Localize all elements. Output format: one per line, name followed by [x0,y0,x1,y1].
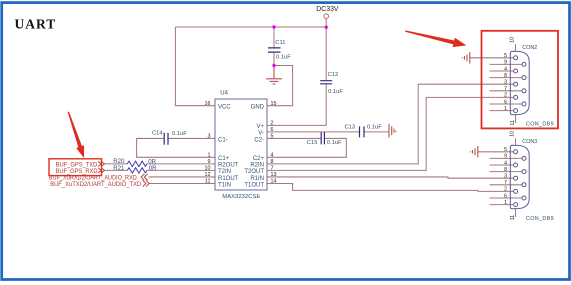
svg-text:2: 2 [504,187,507,193]
svg-text:9: 9 [504,60,507,66]
svg-text:BUF_XuTXD2/UART_AUDIO_TXD: BUF_XuTXD2/UART_AUDIO_TXD [50,182,142,188]
svg-text:12: 12 [205,172,211,178]
svg-text:10: 10 [510,37,516,43]
svg-text:VCC: VCC [218,105,231,111]
svg-text:C2-: C2- [254,137,264,143]
svg-text:0.1uF: 0.1uF [172,131,187,137]
svg-text:0.1uF: 0.1uF [276,55,291,61]
svg-text:7: 7 [271,166,274,172]
svg-text:CON3: CON3 [522,139,537,145]
svg-text:DC33V: DC33V [316,6,339,13]
svg-text:4: 4 [504,160,507,166]
svg-text:V-: V- [258,131,264,137]
svg-text:C11: C11 [275,40,285,46]
svg-text:4: 4 [271,153,274,159]
svg-text:GND: GND [251,105,265,111]
svg-text:C1-: C1- [218,137,228,143]
svg-text:14: 14 [271,179,277,185]
svg-text:13: 13 [271,172,277,178]
svg-text:8: 8 [504,73,507,79]
svg-text:C1+: C1+ [218,156,230,162]
svg-text:1: 1 [504,106,507,112]
svg-text:C15: C15 [307,140,318,146]
svg-text:10: 10 [205,166,211,172]
svg-text:C14: C14 [152,131,163,137]
svg-text:10: 10 [510,131,516,137]
svg-text:T2IN: T2IN [218,169,231,175]
svg-text:0.1uF: 0.1uF [367,124,382,130]
svg-text:0.1uF: 0.1uF [328,89,343,95]
svg-text:16: 16 [205,101,211,107]
svg-text:U4: U4 [220,90,228,96]
svg-text:9: 9 [504,154,507,160]
svg-text:11: 11 [205,179,211,185]
svg-text:8: 8 [271,159,274,165]
svg-text:T1OUT: T1OUT [244,182,264,188]
svg-text:6: 6 [271,127,274,133]
svg-text:V+: V+ [256,124,264,130]
svg-text:R1OUT: R1OUT [218,176,239,182]
svg-text:2: 2 [271,121,274,127]
svg-text:3: 3 [208,134,211,140]
svg-text:BUF_GPS_RXD: BUF_GPS_RXD [56,168,98,175]
svg-text:4: 4 [504,66,507,72]
svg-text:1: 1 [208,153,211,159]
svg-text:11: 11 [510,120,516,125]
svg-text:CON_DB9: CON_DB9 [526,216,554,222]
svg-text:R1IN: R1IN [250,176,264,182]
svg-text:6: 6 [504,193,507,199]
svg-text:6: 6 [504,99,507,105]
svg-text:MAX3232CSE: MAX3232CSE [222,194,260,200]
svg-text:T1IN: T1IN [218,182,231,188]
svg-text:C2+: C2+ [253,156,265,162]
svg-text:2: 2 [504,93,507,99]
svg-text:CON_DB9: CON_DB9 [526,122,554,128]
svg-text:7: 7 [504,86,507,92]
svg-text:UART: UART [15,17,57,32]
svg-text:5: 5 [504,53,507,59]
svg-text:T2OUT: T2OUT [244,169,264,175]
svg-text:5: 5 [504,147,507,153]
svg-text:8: 8 [504,167,507,173]
svg-text:0R: 0R [149,165,157,172]
svg-text:CON2: CON2 [522,45,537,51]
svg-text:7: 7 [504,180,507,186]
svg-text:C12: C12 [328,72,339,78]
svg-text:R2OUT: R2OUT [218,163,239,169]
svg-text:11: 11 [510,215,516,220]
svg-text:3: 3 [504,174,507,180]
svg-text:9: 9 [208,159,211,165]
svg-text:15: 15 [271,101,277,107]
svg-text:R2IN: R2IN [250,163,264,169]
svg-text:C13: C13 [345,124,356,130]
svg-text:3: 3 [504,80,507,86]
svg-text:R21: R21 [113,165,125,172]
svg-text:1: 1 [504,200,507,206]
svg-text:0.1uF: 0.1uF [327,140,342,146]
svg-text:5: 5 [271,134,274,140]
